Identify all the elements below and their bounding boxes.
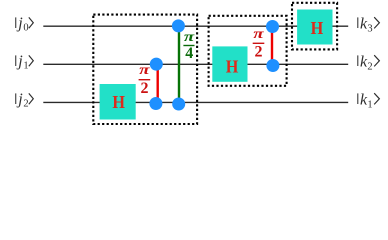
svg-text:1: 1	[367, 99, 372, 110]
wire q0 (top)	[43, 25, 348, 27]
svg-text:2: 2	[23, 99, 28, 110]
controlled-phase gate CP(pi/4) q0-q2	[172, 19, 185, 110]
label pi/2 for CP q1-q2	[139, 61, 151, 97]
gate H3 on wire q0	[297, 10, 332, 45]
gate H2 on wire q1	[212, 46, 247, 81]
controlled-phase gate CP(pi/2) q1-q2	[149, 58, 162, 110]
svg-text:π: π	[253, 25, 264, 41]
node |k2> label	[358, 53, 380, 72]
node |j0> label	[16, 15, 34, 33]
label pi/4 for CP q0-q2	[183, 28, 195, 62]
dotted group box 2	[209, 16, 287, 86]
svg-text:3: 3	[367, 23, 372, 34]
svg-text:j: j	[16, 91, 23, 108]
svg-text:4: 4	[185, 45, 193, 62]
svg-text:π: π	[184, 28, 195, 44]
node |j2> label	[16, 91, 34, 109]
wire q1 (middle)	[43, 63, 348, 65]
node |j1> label	[16, 53, 34, 71]
svg-text:j: j	[16, 15, 23, 32]
node |k3> label	[358, 15, 380, 34]
controlled-phase gate CP(pi/2) q0-q1	[266, 20, 279, 72]
svg-text:1: 1	[23, 61, 28, 72]
node |k1> label	[358, 91, 380, 110]
svg-text:π: π	[139, 61, 150, 77]
gate H1 on wire q2	[100, 84, 136, 120]
svg-text:0: 0	[23, 23, 28, 34]
wire q2 (bottom)	[43, 101, 348, 103]
svg-text:H: H	[226, 57, 239, 77]
svg-text:H: H	[112, 92, 125, 112]
label pi/2 for CP q0-q1	[253, 25, 265, 60]
svg-text:H: H	[311, 18, 324, 38]
dotted group box 1	[93, 15, 197, 124]
svg-text:j: j	[16, 53, 23, 70]
svg-text:2: 2	[367, 61, 372, 72]
dotted group box 3	[292, 3, 337, 50]
svg-text:2: 2	[255, 43, 263, 60]
svg-text:2: 2	[141, 80, 149, 97]
